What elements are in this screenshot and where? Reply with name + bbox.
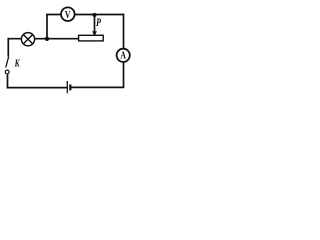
node junction dot on lamp branch xyxy=(45,37,49,41)
lamp X1 cross line 2 xyxy=(23,35,32,44)
wire left lower vertical xyxy=(7,74,9,88)
svg-text:A: A xyxy=(120,50,126,61)
wire wiper vertical from node to rheostat xyxy=(94,15,96,33)
rheostat P body rectangle xyxy=(79,35,104,41)
ammeter A circle xyxy=(117,49,130,62)
svg-text:K: K xyxy=(14,59,20,70)
background xyxy=(0,0,135,97)
wire bottom right segment xyxy=(70,86,124,88)
wire left upper vertical xyxy=(7,38,9,57)
battery long plate xyxy=(66,81,68,93)
wire voltmeter branch vertical xyxy=(46,15,48,39)
lamp X1 circle xyxy=(21,33,34,46)
voltmeter V circle xyxy=(61,7,75,21)
wire lamp branch horizontal xyxy=(8,38,79,40)
wire right side vertical xyxy=(123,14,125,88)
switch K blade xyxy=(6,57,9,68)
rheostat wiper arrowhead xyxy=(92,31,97,36)
battery short thick plate xyxy=(69,84,71,90)
wire top branch horizontal xyxy=(46,14,124,16)
switch K contact circle xyxy=(5,70,9,74)
svg-text:P: P xyxy=(96,17,102,29)
node junction dot on top branch xyxy=(92,13,96,17)
wire bottom left segment xyxy=(7,87,68,89)
svg-text:V: V xyxy=(65,9,71,21)
lamp X1 cross line 1 xyxy=(23,35,32,44)
